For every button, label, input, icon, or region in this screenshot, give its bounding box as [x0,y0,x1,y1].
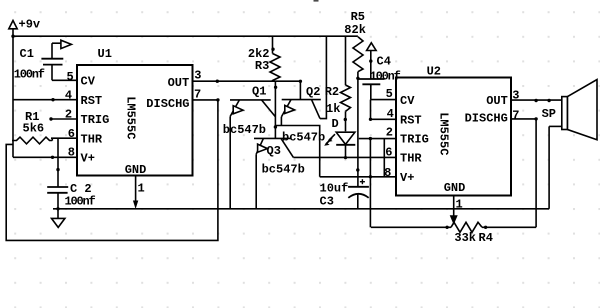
resistor R3 2k2 [270,54,280,82]
junction on C4 top lead [369,59,372,62]
junction at +9v rail corner [11,35,14,38]
svg-text:THR: THR [400,152,422,166]
svg-text:4: 4 [387,107,394,121]
wire U1 pin 6 THR [51,138,53,140]
C3 plus sign [360,179,365,184]
svg-text:bc547b: bc547b [262,163,305,177]
svg-text:C3: C3 [320,195,334,209]
wire C1 to U1 pin 5 [52,79,77,81]
svg-text:V+: V+ [400,171,414,185]
wire Q1 emitter to ground rail [229,116,231,208]
svg-text:LM555C: LM555C [437,112,451,155]
junction R4 right terminal [484,226,487,229]
wire ground rail [53,208,549,210]
transistor Q3 emitter [256,138,263,154]
junction on C3 column [356,168,359,171]
IC U2 LM555C box [396,78,511,196]
svg-text:5: 5 [67,70,74,84]
speaker SP [562,97,568,130]
junction on OUT wire right [547,99,550,102]
svg-text:U2: U2 [427,65,441,79]
svg-text:D: D [332,117,339,131]
svg-text:LM555C: LM555C [123,96,137,139]
svg-text:RST: RST [400,114,422,128]
wire U2 pin 3 OUT to speaker [511,99,562,101]
transistor Q1 emitter [230,100,239,117]
svg-text:7: 7 [194,88,201,102]
transistor Q2 base bar [282,99,321,101]
svg-text:OUT: OUT [486,94,508,108]
transistor Q2 collector [312,100,321,119]
svg-text:1: 1 [456,198,463,212]
wire OUT rail to Q2 base [299,81,301,99]
LED emission arrows [329,134,335,140]
junction OUT rail to Q2 base [299,80,302,83]
wire U1 pin 1 GND [135,176,137,203]
svg-text:R2: R2 [325,85,339,99]
svg-text:C4: C4 [377,55,391,69]
junction C4 lead at RST wire [369,118,372,121]
svg-text:C1: C1 [20,47,34,61]
svg-text:Q1: Q1 [252,85,266,99]
capacitor C3 [348,186,369,188]
junction pin7 wire corner [216,98,219,101]
transistor Q3 collector [281,138,293,157]
junction on U1 V+ wire [51,156,54,159]
wire C2 top lead [57,138,59,187]
junction on OUT wire left [534,99,537,102]
wire riser R4 to TRIG [369,139,371,228]
wire U1 pin 4 RST [13,99,77,101]
wire left +9v rail [12,29,14,158]
svg-text:+9v: +9v [19,18,41,32]
power flag arrow at C4 [367,43,377,51]
junction on C2 lead [56,168,59,171]
wire +9v rail to R2 [345,36,347,85]
junction on Q1 collector column upper [274,86,277,89]
svg-text:bc547b: bc547b [282,131,325,145]
junction on R2 bottom lead [344,118,347,121]
junction riser at V+ wire [369,175,372,178]
junction ground rail at ground symbol [56,207,59,210]
svg-text:3: 3 [512,89,519,103]
capacitor C4 [358,78,385,80]
svg-text:1: 1 [138,182,145,196]
svg-text:V+: V+ [81,152,95,166]
wire top +9v rail [13,35,358,37]
wire to U2 pin 4 RST [371,100,397,120]
svg-text:3: 3 [194,69,201,83]
resistor R1 5k6 [12,137,52,144]
wire LED cathode to THR line [345,145,347,158]
svg-text:33k: 33k [454,231,476,245]
wire C2 bottom lead to ground [57,193,59,219]
wire C4 to U2 pin 5 [371,99,396,101]
svg-text:100nf: 100nf [65,194,96,208]
wire U1 pin 3 OUT rail [193,80,301,82]
wire R5 to C3 top plate column [357,72,359,187]
wire Q2 emitter to U2 V+ [275,126,319,177]
wire TRIG-THR-V+ tie [383,139,385,177]
svg-text:10uf: 10uf [320,182,349,196]
resistor R4 33k [451,222,482,232]
wire C4 bottom lead [370,84,372,99]
wire Q3 emitter to ground rail [255,154,257,209]
svg-text:100nf: 100nf [14,67,45,81]
svg-text:R4: R4 [479,231,493,245]
svg-text:TRIG: TRIG [400,133,429,147]
wire C1 top lead [51,43,53,59]
svg-text:2: 2 [65,107,72,121]
LED D [336,132,355,144]
wire U1 pin 8 V+ [13,156,77,158]
capacitor C2 [47,186,68,188]
wire Q3 collector / U2 THR line [293,156,396,158]
svg-text:GND: GND [444,181,466,195]
svg-text:100nf: 100nf [370,70,401,84]
wire C3 bottom lead to ground rail [357,194,359,209]
wire R2 to LED anode [345,111,347,131]
cropped text artifact at top edge [314,0,319,2]
wire U2 pin 7 DISCHG [511,119,536,227]
svg-text:DISCHG: DISCHG [146,97,189,111]
transistor Q2 emitter [281,100,291,117]
power flag arrow at C1 [61,40,72,48]
wire speaker return to ground rail [549,125,562,127]
wire U2 pin 1 GND [453,196,455,217]
svg-text:Q3: Q3 [267,144,281,158]
transistor Q1 collector [262,100,276,117]
wire R4 left lead [371,226,451,228]
svg-text:8: 8 [68,146,75,160]
svg-text:RST: RST [81,94,103,108]
svg-text:5: 5 [386,87,393,101]
svg-text:GND: GND [125,163,147,177]
svg-text:2: 2 [386,126,393,140]
junction riser at TRIG wire [369,137,372,140]
svg-text:DISCHG: DISCHG [465,112,508,126]
svg-text:7: 7 [512,109,519,123]
ground [52,218,65,227]
svg-text:CV: CV [400,94,415,108]
wire U2 pin 2 TRIG [359,138,396,140]
wire U1 pin7 outer loop [6,100,218,241]
junction on OUT rail at Q1 [216,80,219,83]
svg-text:6: 6 [385,145,392,159]
wire Q2 collector to +9v [320,36,326,118]
wire R4 right lead [482,226,536,228]
wire U2 pin 8 V+ [320,176,396,178]
svg-text:OUT: OUT [168,76,190,90]
svg-text:5k6: 5k6 [23,121,45,135]
junction on RST wire [51,98,54,101]
svg-text:R3: R3 [255,59,269,73]
wire U1 pin 2 TRIG [51,118,77,120]
wire C1 bottom lead [51,65,53,81]
resistor R2 1k [341,85,351,111]
IC U1 LM555C box [77,65,193,176]
svg-text:bc547b: bc547b [223,123,266,137]
junction on R3 top lead [271,48,274,51]
wire C4 top lead [370,51,372,80]
transistor Q1 base bar [230,99,271,101]
junction on Q1 collector column lower [274,125,277,128]
junction R4 left terminal [445,226,448,229]
junction pin7 wire at corner [534,117,537,120]
svg-text:SP: SP [542,107,556,121]
resistor R5 82k [353,37,363,72]
junction R5 bottom at C4 wire [356,77,359,80]
wire Q1 collector column [274,81,276,138]
wire +9v rail to R3 [272,36,274,53]
svg-text:6: 6 [68,127,75,141]
svg-text:THR: THR [81,132,103,146]
svg-text:TRIG: TRIG [81,113,110,127]
power flag +9v [9,21,17,29]
junction LED cathode at THR line [344,156,347,159]
svg-text:CV: CV [81,75,96,89]
svg-text:Q2: Q2 [306,85,320,99]
capacitor C1 [41,58,63,60]
svg-text:8: 8 [384,166,391,180]
transistor Q3 base bar [254,137,291,139]
svg-text:4: 4 [65,88,72,102]
svg-text:1k: 1k [326,102,340,116]
svg-text:U1: U1 [98,47,112,61]
junction on TRIG wire [49,117,52,120]
svg-text:82k: 82k [344,23,366,37]
